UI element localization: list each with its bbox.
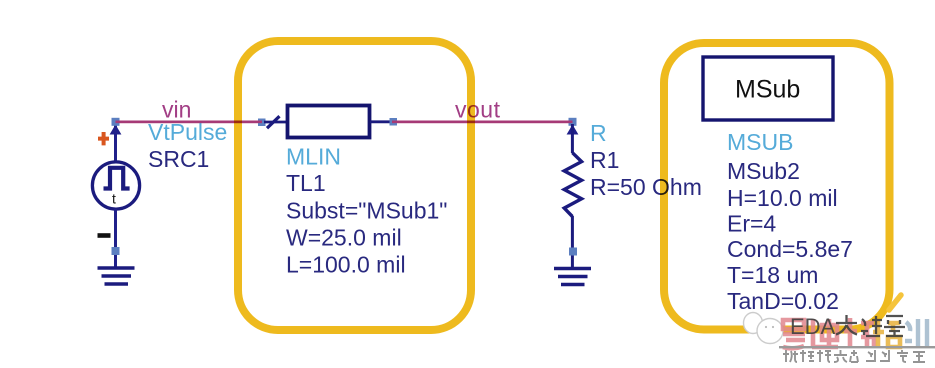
svg-text:Cond=5.8e7: Cond=5.8e7	[727, 236, 853, 262]
watermark tagline chars	[783, 350, 925, 362]
watermark pink char di	[812, 319, 838, 347]
wire vin net top pass	[116, 121, 263, 124]
svg-text:EDA: EDA	[790, 314, 836, 339]
node MLIN pin1	[258, 119, 266, 127]
node vout at R1	[569, 118, 577, 126]
svg-text:R=50 Ohm: R=50 Ohm	[590, 174, 702, 200]
watermark logo group	[744, 295, 902, 344]
wire vout net	[392, 121, 573, 124]
highlight box 1 around MLIN	[238, 41, 471, 330]
pulse glyph inside SRC1	[104, 168, 130, 189]
svg-text:TL1: TL1	[286, 170, 326, 196]
wire arrow at R1 top	[567, 125, 579, 135]
highlight box 2 around MSub	[664, 43, 890, 330]
svg-text:H=10.0 mil: H=10.0 mil	[727, 185, 838, 211]
wire MLIN pin1 stub	[264, 121, 286, 124]
wire R1 bottom	[571, 216, 574, 267]
svg-text:MSub2: MSub2	[727, 158, 800, 184]
svg-text:vout: vout	[455, 97, 501, 123]
ground GND2	[554, 269, 591, 285]
wire SRC1 bottom vertical	[114, 209, 117, 267]
microstrip line TL1 body	[288, 106, 370, 138]
svg-text:TanD=0.02: TanD=0.02	[727, 288, 839, 314]
watermark char tang	[884, 316, 905, 336]
wire arrow at vin node	[110, 125, 122, 135]
svg-text:t: t	[112, 191, 116, 207]
node SRC1 minus junction	[112, 247, 120, 255]
svg-text:MSub: MSub	[735, 76, 800, 104]
svg-text:Er=4: Er=4	[727, 211, 776, 237]
node MLIN pin2	[390, 118, 398, 126]
watermark yellow swoosh	[889, 295, 901, 310]
watermark divider line	[779, 346, 935, 348]
node vin junction	[112, 118, 120, 126]
minus sign of SRC1	[98, 233, 111, 238]
watermark char pei	[873, 319, 900, 347]
svg-text:MLIN: MLIN	[286, 144, 341, 170]
watermark mascot blobs	[744, 313, 763, 334]
svg-text:R1: R1	[590, 147, 619, 173]
plus sign of SRC1	[98, 132, 109, 145]
wire vin net	[116, 121, 263, 124]
watermark char xun	[905, 319, 927, 347]
svg-text:R: R	[590, 120, 607, 146]
pin1 slash mark	[267, 116, 280, 128]
svg-text:MSUB: MSUB	[727, 129, 793, 155]
voltage source V1 SRC1 circle	[92, 162, 139, 209]
svg-text:Subst="MSub1": Subst="MSub1"	[286, 198, 447, 224]
svg-text:T=18 um: T=18 um	[727, 262, 818, 288]
node R1 ground junction	[569, 248, 577, 256]
MSub block symbol box	[703, 57, 833, 120]
resistor R1 zigzag	[564, 153, 581, 217]
wire MLIN pin2 stub	[370, 120, 391, 123]
watermark pink char yi	[783, 320, 805, 348]
svg-text:W=25.0 mil: W=25.0 mil	[286, 225, 402, 251]
svg-text:SRC1: SRC1	[148, 146, 209, 172]
watermark char jiang	[861, 316, 882, 336]
svg-text:L=100.0 mil: L=100.0 mil	[286, 252, 406, 278]
wire SRC1 top vertical	[114, 122, 117, 163]
wire vout net top pass	[392, 121, 573, 124]
watermark char da	[836, 315, 857, 335]
watermark pink char tuo	[844, 318, 874, 348]
ground GND1	[98, 268, 135, 284]
wire R1 top	[571, 124, 574, 153]
